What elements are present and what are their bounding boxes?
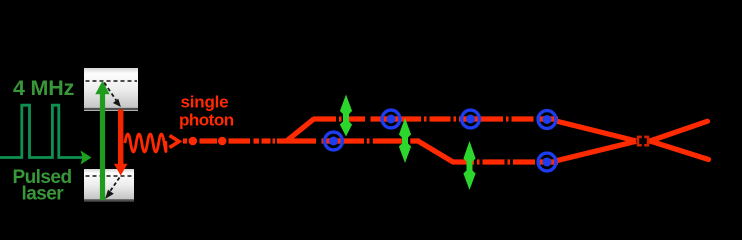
svg-text:4 MHz: 4 MHz	[13, 76, 74, 100]
svg-text:single: single	[181, 93, 229, 112]
svg-text:photon: photon	[179, 111, 234, 130]
svg-text:laser: laser	[22, 184, 65, 205]
